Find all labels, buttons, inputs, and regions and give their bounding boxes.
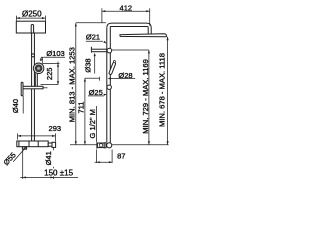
svg-text:293: 293 (49, 124, 62, 133)
disc center stub (31, 25, 33, 34)
hand shower handle (34, 73, 36, 86)
hand shower head (side view) (33, 63, 44, 74)
dimension MIN. 729 - MAX. 1169 (148, 50, 150, 145)
svg-text:Ø103: Ø103 (46, 49, 64, 58)
slider ball (107, 48, 112, 53)
top bend and arm (107, 23, 151, 34)
mixer neck (48, 143, 52, 146)
dimension 150 +-15 (22, 150, 24, 179)
dimension MIN. 813 - MAX. 1253 (76, 23, 106, 145)
dimension Ø250 (16, 16, 45, 21)
bottom reference line (70, 144, 97, 146)
svg-text:MIN. 729 - MAX. 1169: MIN. 729 - MAX. 1169 (141, 59, 150, 134)
overhead shower head (front view, edge) (120, 34, 167, 37)
svg-text:Ø38: Ø38 (84, 58, 93, 72)
svg-text:Ø250: Ø250 (22, 9, 42, 18)
svg-text:225: 225 (45, 68, 54, 81)
svg-text:Ø41: Ø41 (44, 151, 53, 165)
dimension 225 (41, 57, 60, 84)
svg-text:150 ±15: 150 ±15 (44, 168, 73, 177)
riser pipe (front view) (106, 28, 108, 143)
slider knob (32, 54, 35, 57)
dimension MIN. 678 - MAX. 1118 (167, 37, 169, 145)
label Ø55 (13, 148, 25, 162)
wall flange (side view) (52, 142, 56, 147)
dimension 412 (102, 8, 150, 25)
dimension 87 (95, 150, 113, 164)
svg-text:87: 87 (117, 152, 125, 161)
mixer outlet tab (22, 147, 26, 150)
svg-text:MIN. 678 - MAX. 1118: MIN. 678 - MAX. 1118 (157, 53, 166, 127)
svg-text:Ø40: Ø40 (11, 99, 20, 113)
svg-text:G 1/2" M: G 1/2" M (88, 109, 97, 138)
svg-text:MIN. 813 - MAX. 1253: MIN. 813 - MAX. 1253 (68, 47, 77, 122)
dimension 711 (85, 77, 100, 145)
slider bar (front view) (90, 47, 92, 53)
overhead shower disc (side view) (16, 21, 45, 33)
pipe ball joint (107, 85, 111, 89)
hand shower holder (21, 82, 23, 96)
mixer body (side view) (17, 141, 48, 147)
wall supply fitting (front view) (96, 142, 98, 148)
svg-text:711: 711 (77, 102, 86, 114)
svg-text:Ø25: Ø25 (89, 88, 103, 97)
hand shower (front view, diagonal) (109, 61, 115, 75)
svg-text:412: 412 (120, 4, 133, 13)
riser pipe (side view) (31, 33, 33, 141)
svg-text:Ø21: Ø21 (86, 33, 100, 42)
